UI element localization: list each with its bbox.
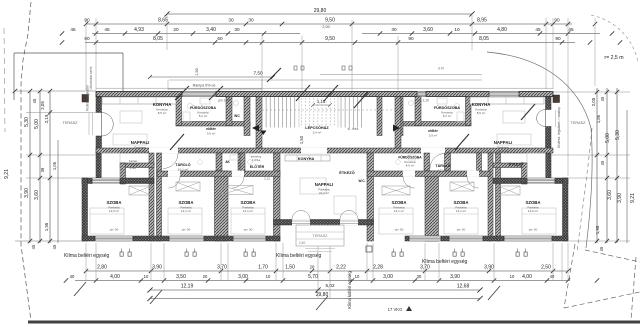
eaves line above top wall (96, 87, 553, 89)
svg-text:3,00: 3,00 (383, 274, 393, 280)
svg-text:40: 40 (550, 274, 555, 279)
left dim rotated labels (4, 98, 57, 249)
svg-text:WC: WC (234, 114, 240, 118)
entry door right double arc (537, 110, 546, 127)
svg-text:1,70: 1,70 (258, 265, 268, 271)
power cable marker right (553, 95, 560, 103)
svg-text:90: 90 (84, 18, 90, 23)
ramp band above top wall (148, 68, 482, 90)
svg-text:4,00: 4,00 (110, 274, 120, 280)
section slash 5 (455, 134, 469, 150)
entry door left double arc (102, 113, 114, 137)
road edge dashed line far left (4, 28, 5, 132)
svg-text:40: 40 (70, 274, 75, 279)
svg-text:TERASZ: TERASZ (571, 121, 587, 125)
svg-text:9,50: 9,50 (325, 18, 335, 24)
svg-text:45: 45 (32, 98, 37, 103)
svg-text:30: 30 (391, 27, 397, 32)
dimension line top row3 (60, 25, 614, 36)
room label NAPPALI right (494, 140, 513, 153)
klima indoor unit symbol 5 (453, 249, 464, 257)
terrace centre extension lines (317, 246, 319, 298)
dimension line top row4 (60, 36, 622, 45)
wall vertical kitchen-bath left (176, 97, 182, 126)
svg-text:3,60: 3,60 (607, 190, 613, 200)
wall flank room right vertical (563, 178, 569, 241)
wall livingB right vertical (367, 153, 374, 241)
bath fixtures midband (198, 155, 448, 164)
svg-text:pm 90: pm 90 (395, 228, 404, 232)
room label SZOBA1 (106, 200, 121, 213)
svg-text:útburkolat széle: útburkolat széle (89, 66, 93, 89)
left dim ticks (13, 89, 52, 243)
wardrobe X-box room 4 (382, 186, 410, 195)
section slash top wall left (175, 86, 189, 100)
svg-text:3,90: 3,90 (152, 265, 162, 271)
stair dim 1,15 (311, 99, 332, 107)
svg-text:5,2 m²: 5,2 m² (443, 114, 452, 118)
svg-text:2,13: 2,13 (264, 177, 270, 181)
svg-text:90: 90 (84, 36, 90, 41)
door arc room2 right (403, 177, 415, 189)
door opening corridor x421 (421, 148, 445, 154)
terrace centre steps (305, 248, 335, 250)
parcel boundary line left dashed (21, 2, 31, 321)
dimension line top total 29,80 (164, 8, 474, 17)
wall rooms top right span (367, 171, 490, 177)
section marker right triangle (393, 125, 400, 132)
svg-text:10,1 m²: 10,1 m² (178, 167, 188, 171)
svg-text:30: 30 (417, 274, 422, 279)
wall vertical kitchen-bath right (466, 97, 472, 126)
svg-text:8,05: 8,05 (153, 36, 163, 42)
svg-text:39: 39 (40, 167, 45, 172)
wall party C vertical (488, 153, 493, 241)
svg-text:4,80: 4,80 (497, 27, 507, 33)
wall flank room top right (493, 178, 568, 184)
room label eloter right (428, 129, 438, 137)
svg-text:4 rét.: 4 rét. (130, 166, 137, 170)
svg-text:8,5 m²: 8,5 m² (158, 111, 167, 115)
window top wall kitchen-right (489, 92, 519, 97)
svg-text:ELŐTÉR: ELŐTÉR (250, 164, 265, 169)
svg-text:5,2 m²: 5,2 m² (199, 114, 208, 118)
wall left exterior lower (96, 136, 102, 153)
svg-text:SZOBA: SZOBA (240, 200, 255, 205)
section slash 2 (324, 85, 338, 101)
wardrobe X-box room 3 (221, 186, 253, 195)
klima indoor unit symbol 6 (516, 249, 527, 257)
sofa right unit (497, 134, 531, 145)
right dim connectors (551, 92, 630, 241)
svg-text:10: 10 (510, 274, 515, 279)
wall staircase shaft (377, 97, 382, 136)
svg-text:8,65: 8,65 (158, 18, 168, 24)
svg-text:10: 10 (144, 274, 149, 279)
parcel corner dashed b (564, 292, 640, 308)
svg-text:2,00: 2,00 (322, 25, 329, 29)
svg-text:45: 45 (568, 27, 574, 32)
left dim vertical lines (30, 91, 58, 243)
svg-text:2,19: 2,19 (44, 114, 49, 123)
svg-text:SZOBA: SZOBA (178, 200, 193, 205)
svg-text:3,50: 3,50 (176, 274, 186, 280)
svg-text:28,8 m²: 28,8 m² (498, 149, 508, 153)
svg-text:LÉPCSŐHÁZ: LÉPCSŐHÁZ (305, 125, 329, 130)
bottom dim line3 (147, 283, 482, 293)
wall party A vertical (149, 153, 154, 241)
kitchen counter left (102, 97, 176, 104)
svg-text:30: 30 (234, 27, 240, 32)
wall flank room left vertical (82, 178, 88, 241)
svg-text:8,5 m²: 8,5 m² (477, 111, 486, 115)
window bottom room5 (449, 236, 483, 241)
section slash 3 (354, 92, 368, 108)
svg-text:60: 60 (217, 36, 223, 41)
svg-text:r= 2,5 m: r= 2,5 m (604, 55, 623, 61)
svg-text:24,2 m²: 24,2 m² (319, 191, 329, 195)
wall vertical bath-wc right (415, 97, 421, 126)
svg-text:ÉTKEZŐ: ÉTKEZŐ (339, 170, 354, 175)
svg-text:30: 30 (248, 18, 254, 23)
svg-text:KONYHA: KONYHA (298, 157, 315, 161)
svg-text:12,6 m²: 12,6 m² (109, 209, 119, 213)
svg-text:20: 20 (173, 27, 179, 32)
wardrobe X-box room 6 (498, 186, 520, 195)
room label WC centre (359, 179, 366, 183)
door arc corridor left (163, 154, 178, 169)
bottom dim line2 (64, 274, 599, 283)
svg-text:2,05: 2,05 (40, 101, 45, 110)
terrace door opening2 (340, 219, 358, 225)
bed room6 (522, 208, 556, 234)
window bottom room6 (504, 236, 552, 241)
wall bottom rooms right (405, 236, 568, 241)
entry steps right (555, 110, 557, 127)
svg-text:pm 90: pm 90 (529, 228, 538, 232)
door arc room3 right (467, 177, 479, 189)
wall vertical bath-wc left (226, 97, 232, 126)
section slash 6 (521, 104, 535, 120)
svg-text:AK: AK (225, 160, 230, 164)
svg-text:1,50: 1,50 (299, 135, 304, 144)
svg-text:előtér: előtér (206, 127, 216, 131)
wall staircase left (256, 97, 262, 149)
section marker down triangle (260, 131, 267, 136)
window flank top left (92, 178, 120, 184)
wall staircase right (395, 97, 401, 149)
svg-text:3,40: 3,40 (206, 27, 216, 33)
door arc corridor right (430, 154, 445, 169)
svg-text:9,50: 9,50 (325, 36, 335, 42)
terrace door arcs centre2 (340, 211, 358, 220)
wall midband storage left (120, 163, 154, 168)
door opening room3 left (232, 171, 244, 177)
svg-text:4,00: 4,00 (522, 274, 532, 280)
room label SZOBA5 (453, 200, 468, 213)
svg-text:4,9 m²: 4,9 m² (406, 164, 415, 168)
room label WC left (234, 114, 240, 118)
door opening room3 right (467, 171, 479, 177)
svg-text:tü. létra: tü. létra (348, 127, 359, 131)
wall corridor horizontal (96, 148, 553, 153)
svg-text:3,60: 3,60 (34, 190, 40, 200)
svg-text:2,40: 2,40 (299, 241, 306, 245)
svg-text:4,93: 4,93 (134, 27, 144, 33)
section marker left triangle (252, 125, 259, 132)
svg-text:pm 90: pm 90 (457, 228, 466, 232)
bed room1 (90, 208, 124, 234)
svg-text:45: 45 (600, 96, 605, 101)
svg-text:1,95: 1,95 (44, 222, 49, 231)
table left unit (120, 111, 142, 123)
svg-text:45: 45 (52, 244, 57, 249)
room label KONYHA centre (298, 157, 315, 161)
table right unit (503, 111, 525, 123)
room label FURDOSZOBA right (434, 105, 460, 118)
door opening corridor x149 (149, 148, 178, 154)
entry steps left (88, 113, 90, 135)
parcel corner dashed d (631, 257, 636, 320)
label 17 VKG (388, 306, 412, 312)
svg-text:3,90: 3,90 (484, 265, 494, 271)
svg-text:17 VKG: 17 VKG (388, 307, 403, 312)
svg-text:SZOBA: SZOBA (453, 200, 468, 205)
extension lines top (86, 15, 595, 176)
svg-text:10: 10 (266, 274, 271, 279)
svg-text:2,05: 2,05 (591, 97, 596, 106)
room label TAROLO left (175, 162, 190, 171)
driveway arc solid (487, 52, 592, 248)
svg-text:45: 45 (31, 244, 36, 249)
bottom dim line1 (84, 265, 570, 274)
wall right exterior upper (546, 97, 552, 110)
svg-text:3,90: 3,90 (450, 274, 460, 280)
svg-text:90: 90 (554, 18, 560, 23)
svg-text:2,28: 2,28 (373, 265, 383, 271)
svg-text:30: 30 (228, 18, 234, 23)
wall vertical storage right (522, 163, 528, 184)
svg-text:8,95: 8,95 (477, 18, 487, 24)
bed room3 (231, 208, 265, 234)
staircase dashed treads (302, 98, 335, 126)
svg-text:1,0/1a: 1,0/1a (252, 158, 261, 162)
site boundary bottom thick line (28, 321, 640, 324)
svg-text:20: 20 (203, 274, 208, 279)
section slash 1b (296, 85, 310, 101)
neighbour building outline top-left (14, 53, 123, 100)
wall left exterior upper (96, 97, 102, 113)
wall bottom rooms left (82, 236, 280, 241)
room label ETKEZO right unit (509, 162, 523, 167)
svg-text:5,30: 5,30 (615, 130, 621, 140)
staircase treads (262, 97, 395, 128)
bath fixtures right (409, 98, 464, 122)
svg-text:1,95: 1,95 (595, 225, 600, 234)
svg-text:45: 45 (599, 246, 604, 251)
room label KONYHA right (472, 102, 491, 115)
svg-text:Klíma kültéri egység: Klíma kültéri egység (347, 270, 352, 308)
svg-text:pm 90: pm 90 (110, 228, 119, 232)
svg-text:1,06: 1,06 (52, 161, 57, 170)
svg-text:5,30: 5,30 (24, 117, 30, 127)
svg-text:Rampa 5%-os: Rampa 5%-os (193, 84, 216, 88)
bottom extension lines (86, 243, 568, 281)
radius arc dashed r25 (591, 15, 638, 62)
svg-text:10: 10 (454, 27, 460, 32)
svg-text:TÁROLÓ: TÁROLÓ (435, 163, 450, 168)
svg-text:5,70: 5,70 (308, 274, 318, 280)
svg-text:NAPPALI: NAPPALI (131, 140, 150, 145)
svg-text:3,90: 3,90 (24, 188, 30, 198)
right dim rotated labels (591, 96, 636, 234)
door arc room3 left (233, 177, 245, 189)
wall top exterior (96, 92, 553, 97)
svg-text:W.C.: W.C. (359, 179, 366, 183)
svg-text:2,80: 2,80 (97, 265, 107, 271)
svg-text:3,00: 3,00 (238, 274, 248, 280)
svg-text:7,50: 7,50 (253, 71, 263, 76)
room label NAPPALI centre (315, 182, 334, 195)
wall livingB left vertical (274, 153, 281, 241)
svg-text:pm 90: pm 90 (182, 228, 191, 232)
svg-text:SZOBA: SZOBA (106, 200, 121, 205)
door opening corridor x301 (301, 148, 327, 154)
svg-text:FÜRDŐSZOBA: FÜRDŐSZOBA (398, 155, 422, 160)
section slash 4 (170, 134, 184, 150)
room label SZOBA3 (240, 200, 255, 213)
svg-text:ö R: ö R (438, 67, 444, 71)
svg-text:2,50: 2,50 (541, 265, 551, 271)
note block left midband (128, 159, 138, 170)
room label FURDOSZOBA left (190, 105, 216, 118)
svg-text:SZOBA: SZOBA (525, 200, 540, 205)
svg-text:NAPPALI: NAPPALI (494, 140, 513, 145)
svg-text:ÉTKEZŐ: ÉTKEZŐ (509, 162, 523, 167)
klima outdoor unit square (366, 246, 372, 252)
wall vertical storage left (120, 163, 126, 184)
bottom dim line4 (147, 292, 482, 301)
room label AK left (225, 160, 230, 164)
vent pair symbol right (342, 66, 352, 70)
wall vertical bath2 right-b (477, 153, 482, 171)
svg-text:2,22: 2,22 (336, 265, 346, 271)
svg-text:pm 90: pm 90 (244, 228, 253, 232)
room label FURDOSZOBA midband right (398, 155, 422, 168)
wall right exterior lower (546, 127, 552, 154)
wall left exterior lowest (96, 153, 102, 178)
svg-text:90: 90 (408, 36, 414, 41)
svg-text:12,1 m²: 12,1 m² (181, 209, 191, 213)
wall vertical bath2 left-b (240, 153, 245, 171)
wall party BC thick vertical (424, 153, 430, 171)
terrace notch right (527, 153, 546, 178)
room label SZOBA2 (178, 200, 193, 213)
bed room5 (444, 208, 478, 234)
svg-text:28,8 m²: 28,8 m² (135, 149, 145, 153)
svg-text:8,05: 8,05 (479, 36, 489, 42)
window bottom room3 (233, 236, 266, 241)
window top wall bathroom-left (182, 92, 216, 97)
bath fixtures left (183, 98, 238, 122)
terrace notch left (102, 153, 121, 178)
section slash 1 (267, 68, 281, 82)
svg-text:5,4 m²: 5,4 m² (313, 130, 322, 134)
window top wall small-right (417, 92, 426, 97)
left dim connectors (15, 91, 101, 241)
svg-text:KONYHA: KONYHA (153, 102, 172, 107)
parcel corner dashed c (585, 250, 640, 262)
vent pair symbol left (294, 66, 304, 70)
terrace door opening1 (292, 219, 310, 225)
wardrobe X-box room 5 (450, 182, 474, 191)
svg-text:12,1 m²: 12,1 m² (394, 209, 404, 213)
svg-text:1,50: 1,50 (195, 68, 199, 75)
sofa left unit (113, 134, 147, 145)
table centre unit (300, 178, 326, 194)
door opening room2 left (168, 171, 180, 177)
bed room4 (379, 208, 413, 234)
klima indoor unit symbol 2 (185, 249, 196, 257)
room label SZOBA4 (391, 200, 406, 213)
room label SZOBA6 (525, 200, 540, 213)
svg-text:45: 45 (70, 27, 76, 32)
svg-text:12,1 m²: 12,1 m² (456, 209, 466, 213)
svg-text:45: 45 (535, 27, 541, 32)
window bottom room1 (95, 236, 133, 241)
wall interior horizontal left-unit (176, 122, 250, 127)
kitchen counter centre (285, 155, 330, 161)
sofa centre unit (334, 196, 356, 214)
svg-text:1,50: 1,50 (285, 265, 295, 271)
terrace slab centre (296, 225, 344, 246)
svg-text:TERASZ: TERASZ (313, 234, 329, 238)
room label NAPPALI left (131, 140, 150, 153)
wall right exterior lowest (546, 153, 552, 178)
wardrobe X-box room 1 (129, 186, 151, 195)
kitchen counter right (470, 97, 544, 104)
right dim vertical lines (597, 88, 627, 243)
svg-text:KONYHA: KONYHA (472, 102, 491, 107)
wall vertical hall left (244, 97, 250, 136)
svg-text:FÜRDŐSZOBA: FÜRDŐSZOBA (434, 105, 460, 110)
svg-text:FÜRDŐSZOBA: FÜRDŐSZOBA (190, 105, 216, 110)
svg-text:90: 90 (555, 36, 561, 41)
svg-text:20: 20 (310, 265, 315, 270)
svg-text:3,9 m²: 3,9 m² (429, 133, 438, 137)
parcel corner dashed a (564, 244, 575, 308)
dimension line top row2 (84, 18, 597, 27)
svg-text:3,90: 3,90 (617, 193, 623, 203)
wall interior horizontal right-unit (397, 122, 471, 127)
room label TAROLO right (435, 163, 450, 172)
svg-text:pm 1,10: pm 1,10 (218, 99, 230, 103)
wall party AB thick vertical (216, 153, 222, 171)
svg-text:előtér: előtér (428, 129, 438, 133)
room label KONYHA left (153, 102, 172, 115)
room label eloter left (206, 127, 216, 135)
svg-text:3,9 m²: 3,9 m² (207, 131, 216, 135)
svg-text:SZOBA: SZOBA (391, 200, 406, 205)
right dim ticks (595, 90, 619, 243)
wall midband storage right (493, 163, 527, 168)
svg-text:TERASZ: TERASZ (63, 121, 79, 125)
svg-text:NAPPALI: NAPPALI (315, 182, 334, 187)
bottom break marks (74, 282, 500, 310)
klima indoor unit symbol 1 (120, 249, 131, 257)
wall bottom centre unit (274, 220, 374, 226)
power cable marker left (82, 95, 89, 103)
